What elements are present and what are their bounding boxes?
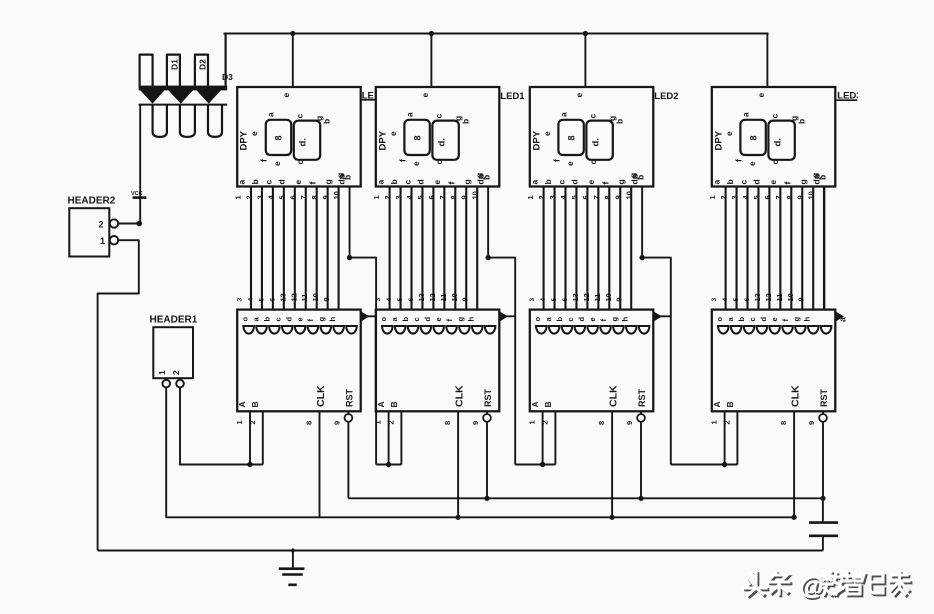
svg-text:4: 4 <box>386 298 393 302</box>
power symbol VCC <box>133 196 147 199</box>
svg-text:e: e <box>724 131 734 136</box>
svg-text:g: g <box>610 317 619 322</box>
node driver U1 pin1 junction <box>247 462 252 467</box>
7-seg display DS4 digit left <box>740 120 765 155</box>
driver IC U2 box <box>376 310 500 412</box>
svg-text:d: d <box>569 179 579 184</box>
svg-text:13: 13 <box>278 293 287 301</box>
pin driver U4 clock arrow <box>835 311 844 321</box>
svg-text:d: d <box>759 317 768 322</box>
connector HEADER1 body <box>153 327 193 378</box>
svg-text:9: 9 <box>460 195 469 199</box>
svg-text:2: 2 <box>99 220 104 230</box>
label display DS2 bottom pin names <box>375 174 485 184</box>
driver U1 output buffer glyphs <box>243 326 356 334</box>
svg-text:3: 3 <box>237 298 244 302</box>
wire bus display DS3 to driver U3 (pins 1-9) <box>544 187 632 310</box>
svg-text:c: c <box>402 180 412 185</box>
capacitor C1 bottom plate <box>809 534 838 537</box>
wire diode loop upper 1 <box>140 55 153 87</box>
pin driver U2 CLK wire <box>457 411 459 517</box>
node carry junction 2 <box>485 255 490 260</box>
svg-text:a: a <box>375 180 385 185</box>
svg-text:c: c <box>433 114 443 119</box>
svg-text:c: c <box>769 114 779 119</box>
svg-text:8: 8 <box>449 195 458 199</box>
svg-text:c: c <box>264 180 274 185</box>
svg-text:8: 8 <box>785 195 794 199</box>
node CLK rail junction U2 <box>456 515 461 520</box>
svg-text:B: B <box>250 401 260 407</box>
svg-text:1: 1 <box>708 195 717 199</box>
pin driver U1 RST wire <box>347 422 349 499</box>
label driver U4 top pin numbers <box>711 293 806 301</box>
wire carry to U3 pins 1,2 <box>515 464 555 466</box>
svg-text:6: 6 <box>562 298 569 302</box>
svg-text:11: 11 <box>439 294 448 302</box>
pin driver U2 RST bubble <box>486 411 488 414</box>
svg-text:6: 6 <box>427 195 436 199</box>
svg-text:2: 2 <box>722 420 731 424</box>
wire rail drop to display 2 top pin <box>430 34 432 88</box>
svg-text:c: c <box>748 317 757 321</box>
svg-text:B: B <box>543 401 553 407</box>
svg-text:7: 7 <box>438 195 447 199</box>
svg-text:5: 5 <box>570 195 579 199</box>
svg-text:o: o <box>533 317 542 322</box>
svg-text:g: g <box>792 317 801 322</box>
svg-text:7: 7 <box>592 195 601 199</box>
svg-text:5: 5 <box>752 195 761 199</box>
wire bus display DS4 to driver U4 (pins 1-9) <box>726 187 814 310</box>
label display DS1 bottom pin names <box>237 174 347 184</box>
svg-text:g: g <box>456 317 465 322</box>
7-seg display DS3 digit left <box>558 120 583 155</box>
svg-text:LED2: LED2 <box>654 91 678 102</box>
svg-text:3: 3 <box>255 195 264 199</box>
pin driver U3 RST wire <box>640 422 642 499</box>
svg-text:e: e <box>756 93 766 98</box>
svg-text:f: f <box>600 182 610 185</box>
7-seg display DS2 digit right <box>432 121 458 160</box>
wire carry to U4 pins 1,2 <box>671 464 738 466</box>
svg-text:d.: d. <box>298 138 309 146</box>
wire display DS3 pin10 carry to U3 clock and next stage <box>642 187 671 465</box>
label driver U3 top pin numbers <box>529 293 624 301</box>
svg-text:o: o <box>241 317 250 322</box>
wire RST rail <box>348 497 823 499</box>
svg-text:g: g <box>323 179 333 184</box>
node CLK rail junction U3 <box>610 515 615 520</box>
svg-text:CLK: CLK <box>454 385 466 407</box>
diode D1 triangle <box>140 90 165 104</box>
label display DS4 segment letters <box>724 112 828 180</box>
svg-text:h: h <box>621 317 630 322</box>
svg-text:DPY: DPY <box>239 130 250 150</box>
connector HEADER2 body <box>69 208 109 256</box>
svg-text:9: 9 <box>461 297 470 301</box>
svg-text:11: 11 <box>300 294 309 302</box>
node carry junction 1 <box>347 255 352 260</box>
svg-text:e: e <box>770 317 779 321</box>
label display DS1 segment letters <box>249 112 353 180</box>
svg-text:h: h <box>467 317 476 322</box>
driver IC U1 box <box>237 310 361 412</box>
label driver U1 top pin numbers <box>237 293 332 301</box>
svg-text:b: b <box>460 119 470 124</box>
pin driver U2 RST wire <box>486 422 488 499</box>
diode D2 triangle <box>168 90 193 104</box>
svg-text:e: e <box>411 161 421 166</box>
svg-text:c: c <box>295 114 305 119</box>
wire HEADER2 pin2 to VCC <box>118 223 140 225</box>
svg-text:9: 9 <box>807 421 816 425</box>
svg-text:5: 5 <box>258 298 265 302</box>
svg-text:4: 4 <box>247 298 254 302</box>
label driver U4 output names <box>715 317 812 322</box>
svg-text:7: 7 <box>299 195 308 199</box>
pin HEADER1 pin 2 circle <box>176 380 184 388</box>
svg-text:e: e <box>420 93 430 98</box>
svg-text:dp: dp <box>475 174 485 184</box>
svg-text:2: 2 <box>537 195 546 199</box>
svg-text:10: 10 <box>786 293 795 301</box>
pin driver U4 RST wire <box>822 422 824 499</box>
svg-text:1: 1 <box>157 370 167 375</box>
svg-text:d: d <box>277 179 287 184</box>
svg-text:e: e <box>542 131 552 136</box>
svg-text:8: 8 <box>443 421 452 425</box>
svg-text:d: d <box>415 179 425 184</box>
wire display DS4 pin10 to U4 clock <box>823 187 825 310</box>
svg-text:e: e <box>588 317 597 321</box>
svg-text:1: 1 <box>372 195 381 199</box>
svg-text:f: f <box>782 182 792 185</box>
svg-text:DPY: DPY <box>713 130 724 150</box>
svg-text:f: f <box>446 182 456 185</box>
svg-text:CLK: CLK <box>315 385 327 407</box>
driver U3 output buffer glyphs <box>536 326 649 334</box>
svg-text:3: 3 <box>730 195 739 199</box>
wire diode loop lower 2 <box>180 105 195 137</box>
svg-text:DPY: DPY <box>377 130 388 150</box>
label driver U1 output names <box>241 317 338 322</box>
label display DS4 pin numbers <box>708 191 816 199</box>
svg-text:12: 12 <box>582 293 591 301</box>
wire diode cathode bar <box>139 104 228 106</box>
node RST rail junction U2 <box>484 496 489 501</box>
svg-text:9: 9 <box>332 421 341 425</box>
node CLK rail junction U4 <box>792 515 797 520</box>
svg-text:a: a <box>529 180 539 185</box>
svg-text:12: 12 <box>289 293 298 301</box>
svg-text:b: b <box>322 119 332 124</box>
svg-text:dp: dp <box>337 174 347 184</box>
svg-text:9: 9 <box>614 195 623 199</box>
svg-text:8: 8 <box>603 195 612 199</box>
svg-text:a: a <box>711 180 721 185</box>
pin driver U3 CLK wire <box>611 411 613 517</box>
svg-text:HEADER2: HEADER2 <box>68 196 116 207</box>
svg-text:e: e <box>295 317 304 321</box>
svg-text:c: c <box>412 317 421 321</box>
node rail junction 1 <box>290 31 295 36</box>
svg-text:c: c <box>770 160 780 165</box>
svg-text:e: e <box>747 161 757 166</box>
svg-text:d: d <box>751 179 761 184</box>
driver U2 output buffer glyphs <box>382 326 495 334</box>
driver IC U4 box <box>712 310 836 412</box>
svg-text:11: 11 <box>775 294 784 302</box>
svg-text:2: 2 <box>386 420 395 424</box>
svg-text:RST: RST <box>483 388 493 407</box>
wire diode loop upper 3 <box>195 55 208 87</box>
svg-text:9: 9 <box>322 297 331 301</box>
7-seg display DS4 digit right <box>768 121 794 160</box>
label driver U2 top pin numbers <box>375 293 470 301</box>
svg-text:4: 4 <box>540 298 547 302</box>
svg-text:LED1: LED1 <box>500 91 525 102</box>
label display DS4 bottom pin names <box>711 174 821 184</box>
wire clock branch into U1 <box>361 315 376 317</box>
svg-text:dp: dp <box>629 174 639 184</box>
svg-text:8: 8 <box>779 421 788 425</box>
7-seg display DS2 box <box>376 87 500 187</box>
pin driver U3 pins 1,2 stubs <box>542 411 544 464</box>
svg-text:6: 6 <box>408 298 415 302</box>
label display DS1 pin numbers <box>234 191 342 199</box>
svg-text:d: d <box>284 317 293 322</box>
svg-text:11: 11 <box>593 294 602 302</box>
svg-text:3: 3 <box>548 195 557 199</box>
svg-text:9: 9 <box>796 195 805 199</box>
svg-text:10: 10 <box>311 293 320 301</box>
svg-text:e: e <box>281 93 291 98</box>
svg-text:a: a <box>266 112 276 117</box>
node rail junction 3 <box>583 31 588 36</box>
driver U4 output buffer glyphs <box>718 326 831 334</box>
7-seg display DS3 box <box>530 87 654 187</box>
svg-text:e: e <box>388 131 398 136</box>
wire display DS2 pin10 carry to U2 clock and next stage <box>488 187 515 465</box>
svg-text:A: A <box>237 401 247 407</box>
svg-text:c: c <box>738 180 748 185</box>
label driver U3 output names <box>533 317 630 322</box>
wire clock branch into U2 <box>499 315 515 317</box>
svg-text:9: 9 <box>615 297 624 301</box>
wire rail drop to display 4 top pin <box>766 34 768 88</box>
svg-text:1: 1 <box>710 420 719 424</box>
svg-text:B: B <box>389 401 399 407</box>
svg-text:b: b <box>389 179 399 184</box>
label display DS3 segment letters <box>542 112 646 180</box>
svg-text:5: 5 <box>277 195 286 199</box>
svg-text:f: f <box>397 159 407 162</box>
svg-text:D2: D2 <box>198 59 208 70</box>
wire diode loop lower 1 <box>153 105 167 137</box>
svg-text:1: 1 <box>235 420 244 424</box>
pin HEADER2 pin 1 circle <box>110 236 118 244</box>
svg-text:3: 3 <box>529 298 536 302</box>
svg-text:RST: RST <box>344 388 354 407</box>
svg-text:b: b <box>555 317 564 322</box>
7-seg display DS1 digit left <box>266 120 291 155</box>
wire HEADER1.2 to U1 pins 1,2 <box>180 388 263 465</box>
wire diode string to VCC rail <box>225 34 227 86</box>
svg-text:g: g <box>462 179 472 184</box>
svg-text:12: 12 <box>428 293 437 301</box>
svg-text:8: 8 <box>310 195 319 199</box>
wire diode string left lead <box>139 105 141 224</box>
svg-text:6: 6 <box>581 195 590 199</box>
svg-text:7: 7 <box>774 195 783 199</box>
pin driver U4 pins 1,2 stubs <box>724 411 726 464</box>
label display DS3 bottom pin names <box>529 174 639 184</box>
svg-text:3: 3 <box>375 298 382 302</box>
svg-text:g: g <box>798 179 808 184</box>
node rail junction 2 <box>429 31 434 36</box>
label display DS3 pin numbers <box>526 191 634 199</box>
7-seg display DS2 digit left <box>404 120 429 155</box>
svg-text:VCC: VCC <box>131 191 143 197</box>
svg-text:1: 1 <box>234 195 243 199</box>
wire RST net to C1 <box>822 498 824 522</box>
wire CLK rail (HEADER1.1 to all CLK pins) <box>166 388 794 518</box>
svg-text:CLK: CLK <box>790 385 802 407</box>
pin driver U1 clock arrow <box>361 311 370 321</box>
svg-text:e: e <box>768 180 778 185</box>
svg-text:2: 2 <box>719 195 728 199</box>
svg-text:c: c <box>588 160 598 165</box>
7-seg display DS1 box <box>237 87 361 187</box>
svg-text:e: e <box>565 161 575 166</box>
svg-text:b: b <box>250 179 260 184</box>
node RST rail junction U4 <box>820 496 825 501</box>
capacitor C1 top plate <box>809 521 838 524</box>
svg-text:2: 2 <box>383 195 392 199</box>
svg-text:g: g <box>317 317 326 322</box>
wire bus display DS1 to driver U1 (pins 1-9) <box>251 187 339 310</box>
svg-text:13: 13 <box>753 293 762 301</box>
svg-text:10: 10 <box>450 293 459 301</box>
svg-text:d: d <box>423 317 432 322</box>
svg-text:c: c <box>587 114 597 119</box>
svg-text:6: 6 <box>744 298 751 302</box>
svg-text:HEADER1: HEADER1 <box>150 315 198 326</box>
svg-text:d.: d. <box>436 138 447 146</box>
pin HEADER1 pin 1 circle <box>162 380 170 388</box>
pin driver U2 pins 1,2 stubs <box>388 411 390 464</box>
svg-text:4: 4 <box>722 298 729 302</box>
svg-text:2: 2 <box>540 420 549 424</box>
svg-text:9: 9 <box>321 195 330 199</box>
node RST rail junction U3 <box>638 496 643 501</box>
svg-text:9: 9 <box>797 297 806 301</box>
label display DS2 pin numbers <box>372 191 480 199</box>
svg-text:DPY: DPY <box>531 130 542 150</box>
svg-text:c: c <box>566 317 575 321</box>
svg-text:@: @ <box>800 573 824 601</box>
svg-text:RST: RST <box>637 388 647 407</box>
7-seg display DS4 box <box>712 87 836 187</box>
wire HEADER2 pin1 to ground net <box>98 240 139 550</box>
svg-text:A: A <box>376 401 386 407</box>
node driver U2 pin1 junction <box>386 462 391 467</box>
wire diode loop upper 2 <box>167 55 180 87</box>
svg-text:2: 2 <box>244 195 253 199</box>
svg-text:5: 5 <box>416 195 425 199</box>
svg-text:e: e <box>249 131 259 136</box>
node driver U3 pin1 junction <box>540 462 545 467</box>
wire C1 to ground rail <box>822 536 824 551</box>
svg-text:8: 8 <box>597 421 606 425</box>
svg-text:b: b <box>725 179 735 184</box>
svg-text:c: c <box>273 317 282 321</box>
svg-text:h: h <box>328 317 337 322</box>
svg-text:12: 12 <box>764 293 773 301</box>
pin HEADER2 pin 2 circle <box>110 219 118 227</box>
svg-text:A: A <box>530 401 540 407</box>
svg-text:9: 9 <box>625 421 634 425</box>
svg-text:dp: dp <box>811 174 821 184</box>
wire driver U2 pins 1,2 tie <box>389 464 402 466</box>
svg-text:a: a <box>404 112 414 117</box>
svg-text:8: 8 <box>412 135 422 140</box>
svg-text:9: 9 <box>471 421 480 425</box>
svg-text:e: e <box>586 180 596 185</box>
pin driver U2 clock arrow <box>499 311 508 321</box>
svg-text:13: 13 <box>571 293 580 301</box>
pin driver U1 RST bubble <box>347 411 349 414</box>
wire display DS1 pin10 carry to U1 clock and next stage <box>350 187 377 465</box>
label display DS2 segment letters <box>388 112 492 180</box>
7-seg display DS1 digit right <box>294 121 320 160</box>
svg-text:f: f <box>259 159 269 162</box>
svg-text:6: 6 <box>269 298 276 302</box>
svg-text:10: 10 <box>625 191 634 199</box>
svg-text:c: c <box>295 160 305 165</box>
pin driver U3 RST bubble <box>640 411 642 414</box>
svg-text:5: 5 <box>733 298 740 302</box>
svg-text:e: e <box>272 161 282 166</box>
svg-text:o: o <box>715 317 724 322</box>
diode string D1 D2 D3 anode bar <box>139 86 228 91</box>
diode D3 triangle <box>196 90 221 104</box>
svg-text:5: 5 <box>397 298 404 302</box>
svg-text:e: e <box>434 317 443 321</box>
wire ground rail <box>98 550 823 552</box>
svg-text:RST: RST <box>819 388 829 407</box>
svg-text:13: 13 <box>417 293 426 301</box>
pin driver U4 CLK wire <box>793 411 795 517</box>
svg-text:e: e <box>574 93 584 98</box>
svg-text:c: c <box>434 160 444 165</box>
svg-text:a: a <box>237 180 247 185</box>
wire VCC top rail <box>224 32 769 34</box>
wire rail drop to display 3 top pin <box>584 34 586 88</box>
svg-text:D1: D1 <box>170 59 180 70</box>
wire clock branch into U3 <box>653 315 671 317</box>
svg-text:b: b <box>401 317 410 322</box>
node carry junction 3 <box>639 255 644 260</box>
svg-text:a: a <box>740 112 750 117</box>
wire carry to U2 pins 1,2 <box>376 464 401 466</box>
svg-text:CLK: CLK <box>608 385 620 407</box>
svg-text:D3: D3 <box>222 72 233 82</box>
pin driver U4 RST bubble <box>822 411 824 414</box>
svg-text:o: o <box>379 317 388 322</box>
ground <box>290 548 295 554</box>
